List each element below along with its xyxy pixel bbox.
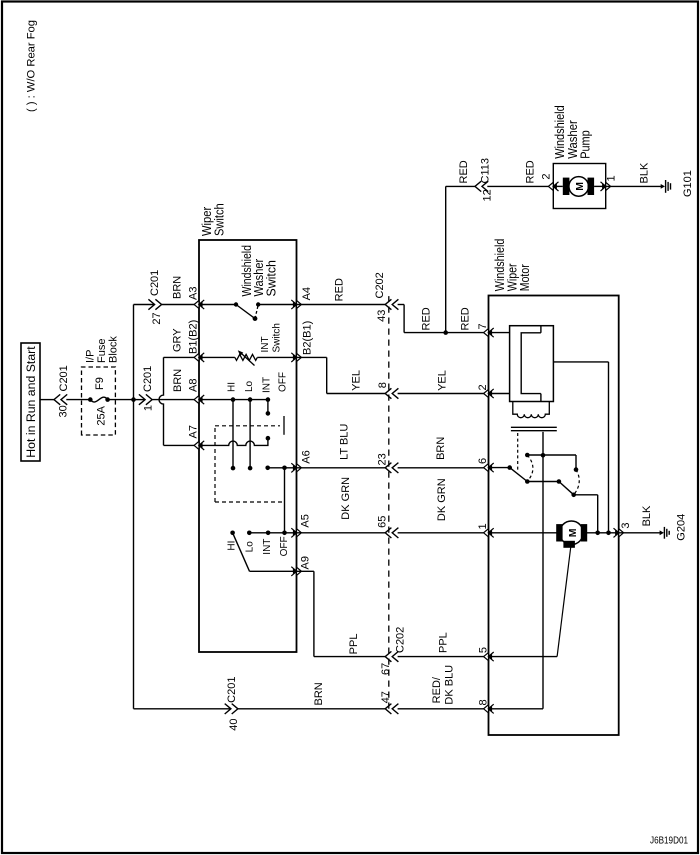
svg-text:YEL: YEL [351, 370, 363, 391]
svg-text:YEL: YEL [437, 370, 449, 391]
svg-text:RED: RED [458, 160, 470, 183]
svg-text:23: 23 [377, 453, 389, 465]
svg-text:BRN: BRN [313, 682, 325, 705]
svg-text:DK BLU: DK BLU [444, 665, 456, 705]
svg-text:M: M [567, 528, 579, 537]
svg-text:INT: INT [260, 336, 271, 352]
svg-text:1: 1 [477, 523, 489, 529]
svg-text:BLK: BLK [641, 505, 653, 526]
svg-text:I/P: I/P [85, 350, 97, 363]
svg-text:INT: INT [262, 377, 273, 393]
svg-text:43: 43 [376, 310, 388, 322]
svg-text:Lo: Lo [245, 541, 256, 553]
svg-text:8: 8 [377, 382, 389, 388]
svg-text:GRY: GRY [172, 328, 184, 352]
svg-text:G204: G204 [676, 514, 688, 541]
svg-text:PPL: PPL [348, 634, 360, 655]
svg-text:12: 12 [482, 189, 494, 201]
svg-text:A7: A7 [188, 425, 200, 438]
svg-text:M: M [574, 182, 586, 191]
svg-text:( ) : W/O Rear Fog: ( ) : W/O Rear Fog [26, 20, 38, 112]
svg-text:C201: C201 [149, 270, 161, 296]
svg-text:DK GRN: DK GRN [340, 477, 352, 520]
svg-text:RED: RED [334, 278, 346, 301]
svg-text:2: 2 [477, 384, 489, 390]
svg-text:40: 40 [228, 719, 240, 731]
svg-text:BLK: BLK [639, 162, 651, 183]
svg-text:C202: C202 [395, 627, 407, 653]
svg-text:C201: C201 [58, 365, 70, 391]
svg-text:Fuse: Fuse [96, 339, 108, 363]
svg-text:C201: C201 [142, 366, 154, 392]
svg-text:LT BLU: LT BLU [339, 424, 351, 460]
svg-text:PPL: PPL [438, 632, 450, 653]
svg-text:A6: A6 [301, 450, 313, 463]
svg-text:B1(B2): B1(B2) [188, 320, 200, 354]
svg-text:Switch: Switch [272, 323, 283, 352]
svg-text:HI: HI [227, 541, 238, 551]
svg-text:INT: INT [262, 539, 273, 555]
svg-text:8: 8 [478, 699, 490, 705]
svg-text:Switch: Switch [265, 260, 279, 296]
svg-text:3: 3 [620, 522, 632, 528]
svg-text:G101: G101 [682, 170, 694, 197]
svg-text:DK GRN: DK GRN [436, 478, 448, 521]
svg-text:Hot in Run and Start: Hot in Run and Start [24, 346, 38, 458]
svg-text:RED: RED [460, 307, 472, 330]
svg-text:B2(B1): B2(B1) [302, 321, 314, 355]
svg-text:BRN: BRN [435, 437, 447, 460]
svg-text:C202: C202 [374, 272, 386, 298]
svg-text:A9: A9 [300, 556, 312, 569]
svg-text:27: 27 [151, 312, 163, 324]
svg-text:OFF: OFF [278, 372, 289, 392]
svg-text:OFF: OFF [279, 536, 290, 556]
svg-text:F9: F9 [94, 377, 106, 390]
svg-text:RED: RED [525, 160, 537, 183]
svg-text:A4: A4 [301, 287, 313, 300]
svg-text:47: 47 [380, 691, 392, 703]
svg-text:6: 6 [477, 458, 489, 464]
svg-text:7: 7 [477, 323, 489, 329]
svg-text:30: 30 [58, 405, 70, 417]
svg-text:HI: HI [227, 382, 238, 392]
svg-text:C201: C201 [226, 677, 238, 703]
svg-text:Pump: Pump [579, 130, 593, 159]
svg-text:Motor: Motor [518, 264, 532, 291]
svg-text:BRN: BRN [172, 369, 184, 392]
svg-text:1: 1 [606, 175, 618, 181]
svg-text:RED: RED [421, 307, 433, 330]
svg-text:Windshield: Windshield [553, 105, 567, 159]
svg-text:C113: C113 [480, 158, 492, 183]
svg-text:65: 65 [377, 516, 389, 528]
svg-text:J6B19D01: J6B19D01 [650, 836, 688, 847]
svg-text:A5: A5 [300, 514, 312, 527]
svg-text:BRN: BRN [172, 276, 184, 299]
svg-text:2: 2 [541, 173, 553, 179]
svg-text:25A: 25A [96, 405, 108, 425]
svg-text:A8: A8 [188, 379, 200, 392]
svg-text:Switch: Switch [213, 203, 227, 236]
svg-text:Lo: Lo [244, 380, 255, 392]
svg-text:1: 1 [143, 405, 155, 411]
svg-text:Block: Block [108, 336, 120, 363]
svg-text:67: 67 [380, 663, 392, 675]
svg-text:A3: A3 [188, 287, 200, 300]
svg-text:5: 5 [478, 647, 490, 653]
svg-text:RED/: RED/ [431, 676, 443, 703]
